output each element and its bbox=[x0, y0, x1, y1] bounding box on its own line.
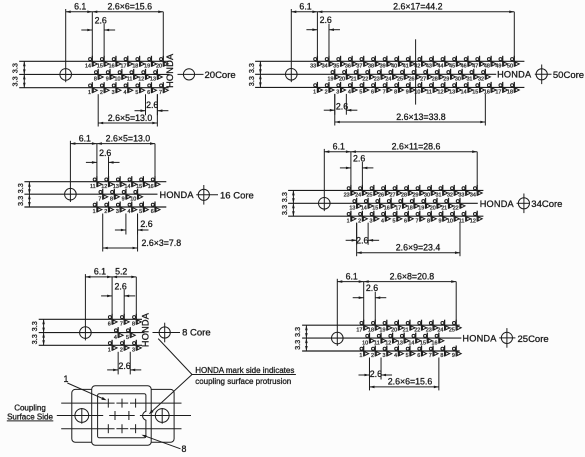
svg-text:2.6: 2.6 bbox=[140, 219, 152, 229]
svg-text:6.1: 6.1 bbox=[333, 142, 345, 152]
svg-text:2.6×5=13.0: 2.6×5=13.0 bbox=[106, 133, 151, 143]
svg-text:3.3: 3.3 bbox=[280, 192, 289, 202]
8 Core body outline bbox=[39, 319, 145, 345]
svg-text:2: 2 bbox=[120, 348, 123, 354]
50Core top row contacts (pins 33-50) bbox=[310, 56, 519, 70]
svg-text:2: 2 bbox=[104, 209, 107, 215]
svg-text:6: 6 bbox=[404, 218, 407, 224]
svg-text:11: 11 bbox=[90, 184, 96, 190]
svg-text:33: 33 bbox=[458, 193, 464, 199]
svg-text:Surface Side: Surface Side bbox=[7, 412, 53, 421]
34Core middle row contacts (pins 13-22) bbox=[349, 198, 465, 212]
svg-text:4: 4 bbox=[348, 90, 351, 96]
svg-text:3.3: 3.3 bbox=[30, 334, 39, 344]
50Core middle row contacts (pins 19-32) bbox=[327, 69, 490, 83]
coupling view contact ticks bottom row bbox=[108, 424, 135, 433]
svg-text:20: 20 bbox=[339, 77, 345, 83]
svg-text:1: 1 bbox=[359, 353, 362, 359]
svg-text:3.3: 3.3 bbox=[11, 63, 20, 73]
svg-text:2.6×13=33.8: 2.6×13=33.8 bbox=[396, 112, 446, 122]
svg-text:7: 7 bbox=[383, 90, 386, 96]
svg-text:2.6×3=7.8: 2.6×3=7.8 bbox=[142, 238, 182, 248]
8 Core polarizing post circle bbox=[153, 323, 181, 343]
svg-text:13: 13 bbox=[349, 206, 355, 212]
svg-text:3: 3 bbox=[132, 348, 135, 354]
coupling view HONDA-mark protrusion notch bbox=[143, 411, 147, 420]
svg-text:10: 10 bbox=[362, 340, 368, 346]
50Core bottom row contacts (pins 1-18) bbox=[313, 82, 519, 96]
50Core bottom dimension 2.6×13=33.8 bbox=[335, 94, 486, 126]
svg-text:18: 18 bbox=[507, 90, 513, 96]
svg-text:HONDA: HONDA bbox=[497, 70, 532, 80]
50Core top 2.6 pitch dimension bbox=[306, 15, 340, 57]
svg-text:3: 3 bbox=[370, 218, 373, 224]
svg-text:33: 33 bbox=[310, 64, 316, 70]
svg-text:17: 17 bbox=[395, 206, 401, 212]
svg-text:18: 18 bbox=[407, 206, 413, 212]
svg-text:7: 7 bbox=[429, 353, 432, 359]
svg-text:7: 7 bbox=[159, 90, 162, 96]
svg-text:6.1: 6.1 bbox=[346, 271, 358, 281]
svg-text:16: 16 bbox=[484, 90, 490, 96]
34Core polarizing post circle bbox=[517, 194, 530, 214]
svg-text:2.6: 2.6 bbox=[115, 281, 127, 291]
16 Core bottom dimension 2.6×3=7.8 bbox=[103, 214, 182, 252]
svg-text:8: 8 bbox=[440, 353, 443, 359]
16 Core HONDA mark bbox=[160, 190, 195, 200]
svg-text:17: 17 bbox=[356, 327, 362, 333]
20Core bottom 2.6 pitch dimension bbox=[135, 94, 169, 115]
pin 1 label and leader bbox=[63, 374, 106, 400]
16 Core bottom row contacts (pins 1-6) bbox=[93, 202, 160, 216]
svg-text:2.6: 2.6 bbox=[336, 102, 348, 112]
svg-text:8: 8 bbox=[182, 444, 187, 454]
svg-text:6.1: 6.1 bbox=[74, 2, 86, 12]
svg-text:2.6: 2.6 bbox=[353, 153, 365, 163]
8 Core middle row contacts (pins 4-5) bbox=[114, 327, 135, 341]
20Core HONDA mark bbox=[165, 53, 175, 88]
svg-text:7: 7 bbox=[120, 322, 123, 328]
svg-text:22: 22 bbox=[453, 206, 459, 212]
svg-text:7: 7 bbox=[98, 196, 101, 202]
svg-text:20: 20 bbox=[430, 206, 436, 212]
coupling view right mounting hole bbox=[155, 408, 169, 424]
20Core middle row contacts (pins 8-13) bbox=[94, 69, 162, 83]
svg-text:1: 1 bbox=[108, 348, 111, 354]
svg-text:2: 2 bbox=[100, 90, 103, 96]
16 Core top row contacts (pins 11-16) bbox=[90, 176, 160, 190]
svg-text:15: 15 bbox=[472, 90, 478, 96]
svg-text:9: 9 bbox=[106, 77, 109, 83]
svg-text:14: 14 bbox=[85, 64, 91, 70]
20Core body outline bbox=[19, 61, 169, 87]
20Core 3.3/3.3 height dimension bbox=[11, 61, 26, 87]
svg-text:2.6×11=28.6: 2.6×11=28.6 bbox=[392, 142, 441, 152]
svg-text:5: 5 bbox=[139, 209, 142, 215]
svg-text:4: 4 bbox=[123, 90, 126, 96]
34Core top 2.6 pitch dimension bbox=[340, 153, 373, 186]
8 Core top 2.6 pitch dimension bbox=[101, 281, 135, 315]
svg-text:16: 16 bbox=[432, 340, 438, 346]
svg-text:19: 19 bbox=[327, 77, 333, 83]
svg-text:6.1: 6.1 bbox=[299, 2, 311, 12]
svg-text:50: 50 bbox=[507, 64, 513, 70]
svg-text:27: 27 bbox=[390, 193, 396, 199]
svg-text:3: 3 bbox=[383, 353, 386, 359]
svg-text:36: 36 bbox=[345, 64, 351, 70]
16 Core mounting hole bbox=[65, 141, 77, 202]
coupling view horizontal centerline bbox=[57, 415, 191, 417]
svg-text:coupling surface protrusion: coupling surface protrusion bbox=[195, 377, 291, 386]
34Core body outline bbox=[288, 190, 483, 216]
svg-text:Coupling: Coupling bbox=[14, 403, 46, 412]
svg-text:8: 8 bbox=[394, 90, 397, 96]
svg-text:HONDA: HONDA bbox=[165, 53, 175, 88]
svg-text:6: 6 bbox=[151, 209, 154, 215]
svg-text:21: 21 bbox=[441, 206, 447, 212]
coupling view housing outline bbox=[92, 386, 152, 446]
svg-text:2.6×6=15.6: 2.6×6=15.6 bbox=[108, 2, 153, 12]
svg-text:16 Core: 16 Core bbox=[220, 191, 254, 202]
coupling view left mounting hole bbox=[75, 408, 89, 424]
50Core body outline bbox=[255, 61, 524, 87]
svg-text:3.3: 3.3 bbox=[293, 327, 302, 337]
25Core polarizing post circle bbox=[499, 328, 515, 348]
svg-text:2.6: 2.6 bbox=[356, 236, 368, 246]
svg-text:8: 8 bbox=[132, 322, 135, 328]
50Core bottom 2.6 pitch dimension bbox=[324, 94, 358, 115]
25Core mounting hole bbox=[332, 279, 344, 346]
svg-text:29: 29 bbox=[412, 193, 418, 199]
50Core top dimension line 6.1 / 2.6×17=44.2 bbox=[291, 2, 514, 58]
svg-text:6.1: 6.1 bbox=[79, 133, 91, 143]
coupling view flange outline bbox=[72, 389, 174, 442]
svg-text:26: 26 bbox=[409, 77, 415, 83]
20Core top dimension line 6.1 / 2.6×6=15.6 bbox=[66, 2, 164, 58]
svg-text:8: 8 bbox=[427, 218, 430, 224]
svg-text:8: 8 bbox=[94, 77, 97, 83]
svg-text:45: 45 bbox=[449, 64, 455, 70]
svg-text:11: 11 bbox=[127, 77, 133, 83]
svg-text:34: 34 bbox=[470, 193, 476, 199]
20Core top row contacts (pins 14-20) bbox=[85, 56, 168, 70]
8 Core top dimension line 6.1 / 5.2 bbox=[85, 267, 136, 316]
svg-text:23: 23 bbox=[374, 77, 380, 83]
8 Core top row contacts (pins 6-8) bbox=[108, 314, 142, 328]
svg-text:5.2: 5.2 bbox=[115, 267, 127, 277]
20Core bottom dimension 2.6×5=13.0 bbox=[98, 94, 157, 126]
svg-text:18: 18 bbox=[132, 64, 138, 70]
svg-text:16: 16 bbox=[384, 206, 390, 212]
20Core polarizing post circle bbox=[178, 69, 204, 80]
25Core bottom dimension 2.6×6=15.6 bbox=[369, 358, 438, 391]
25Core middle row contacts (pins 10-16) bbox=[362, 333, 444, 347]
svg-text:16: 16 bbox=[109, 64, 115, 70]
svg-text:3: 3 bbox=[336, 90, 339, 96]
svg-text:2.6×5=13.0: 2.6×5=13.0 bbox=[108, 113, 153, 123]
coupling view contact ticks top row bbox=[108, 399, 135, 408]
svg-text:3: 3 bbox=[116, 209, 119, 215]
svg-text:4: 4 bbox=[381, 218, 384, 224]
svg-text:4: 4 bbox=[114, 335, 117, 341]
34Core bottom row contacts (pins 1-12) bbox=[347, 211, 483, 225]
svg-text:30: 30 bbox=[424, 193, 430, 199]
svg-text:3.3: 3.3 bbox=[16, 196, 25, 206]
8 Core bottom 2.6 pitch dimension bbox=[107, 352, 141, 375]
svg-text:6: 6 bbox=[371, 90, 374, 96]
34Core 3.3/3.3 height dimension bbox=[280, 190, 295, 216]
svg-text:24: 24 bbox=[385, 77, 391, 83]
34Core HONDA mark bbox=[480, 199, 515, 209]
svg-text:50Core: 50Core bbox=[553, 70, 584, 81]
svg-text:14: 14 bbox=[361, 206, 367, 212]
svg-text:25: 25 bbox=[397, 77, 403, 83]
svg-text:22: 22 bbox=[362, 77, 368, 83]
svg-text:1: 1 bbox=[313, 90, 316, 96]
20Core mounting hole bbox=[60, 9, 72, 82]
svg-text:9: 9 bbox=[452, 353, 455, 359]
svg-text:9: 9 bbox=[438, 218, 441, 224]
svg-text:1: 1 bbox=[347, 218, 350, 224]
svg-text:5: 5 bbox=[406, 353, 409, 359]
svg-text:39: 39 bbox=[380, 64, 386, 70]
svg-text:14: 14 bbox=[461, 90, 467, 96]
svg-text:34Core: 34Core bbox=[531, 199, 562, 210]
16 Core top 2.6 pitch dimension bbox=[86, 148, 120, 178]
svg-text:2.6: 2.6 bbox=[370, 369, 382, 379]
34Core bottom 2.6 pitch dimension bbox=[346, 223, 379, 246]
svg-text:29: 29 bbox=[443, 77, 449, 83]
svg-text:31: 31 bbox=[466, 77, 472, 83]
svg-text:6.1: 6.1 bbox=[94, 267, 106, 277]
svg-text:19: 19 bbox=[418, 206, 424, 212]
svg-text:24: 24 bbox=[437, 327, 443, 333]
svg-text:38: 38 bbox=[368, 64, 374, 70]
svg-text:22: 22 bbox=[414, 327, 420, 333]
svg-text:17: 17 bbox=[495, 90, 501, 96]
svg-text:16: 16 bbox=[148, 184, 154, 190]
svg-text:43: 43 bbox=[426, 64, 432, 70]
svg-text:2.6: 2.6 bbox=[320, 15, 332, 25]
svg-text:30: 30 bbox=[455, 77, 461, 83]
svg-text:1: 1 bbox=[93, 209, 96, 215]
svg-text:12: 12 bbox=[385, 340, 391, 346]
25Core top 2.6 pitch dimension bbox=[353, 283, 387, 321]
svg-text:13: 13 bbox=[150, 77, 156, 83]
svg-text:15: 15 bbox=[97, 64, 103, 70]
svg-text:5: 5 bbox=[126, 335, 129, 341]
16 Core body outline bbox=[24, 182, 166, 207]
svg-text:49: 49 bbox=[495, 64, 501, 70]
svg-text:20: 20 bbox=[156, 64, 162, 70]
34Core top row contacts (pins 23-34) bbox=[344, 185, 483, 199]
25Core bottom row contacts (pins 1-9) bbox=[359, 346, 461, 360]
8 Core 3.3/3.3 height dimension bbox=[30, 319, 45, 345]
svg-text:27: 27 bbox=[420, 77, 426, 83]
svg-text:10: 10 bbox=[447, 218, 453, 224]
svg-text:3.3: 3.3 bbox=[293, 340, 302, 350]
20Core bottom row contacts (pins 1-7) bbox=[88, 82, 168, 96]
svg-text:2: 2 bbox=[371, 353, 374, 359]
34Core mounting hole bbox=[319, 149, 331, 211]
svg-text:4: 4 bbox=[394, 353, 397, 359]
svg-text:3.3: 3.3 bbox=[30, 321, 39, 331]
svg-text:HONDA: HONDA bbox=[160, 190, 195, 200]
coupling view mating face inner outline bbox=[98, 394, 146, 438]
svg-text:11: 11 bbox=[426, 90, 432, 96]
svg-text:17: 17 bbox=[120, 64, 126, 70]
16 Core polarizing post circle bbox=[196, 185, 218, 205]
svg-text:13: 13 bbox=[397, 340, 403, 346]
svg-text:20: 20 bbox=[391, 327, 397, 333]
8 Core bottom row contacts (pins 1-3) bbox=[108, 340, 142, 354]
svg-text:21: 21 bbox=[403, 327, 409, 333]
25Core HONDA mark bbox=[462, 333, 497, 343]
coupling view contact ticks middle row bbox=[115, 411, 129, 420]
svg-text:31: 31 bbox=[435, 193, 441, 199]
svg-text:12: 12 bbox=[470, 218, 476, 224]
svg-text:2: 2 bbox=[325, 90, 328, 96]
svg-text:48: 48 bbox=[484, 64, 490, 70]
16 Core top dimension line 6.1 / 2.6×5=13.0 bbox=[70, 133, 155, 177]
34Core bottom dimension 2.6×9=23.4 bbox=[357, 223, 460, 257]
svg-text:7: 7 bbox=[415, 218, 418, 224]
svg-text:HONDA: HONDA bbox=[462, 333, 497, 343]
svg-text:12: 12 bbox=[138, 77, 144, 83]
svg-text:28: 28 bbox=[401, 193, 407, 199]
svg-text:25Core: 25Core bbox=[518, 334, 549, 345]
svg-text:15: 15 bbox=[420, 340, 426, 346]
svg-text:9: 9 bbox=[406, 90, 409, 96]
50Core 3.3/3.3 height dimension bbox=[247, 61, 262, 87]
25Core 3.3/3.3 height dimension bbox=[293, 325, 308, 351]
svg-text:2.6: 2.6 bbox=[146, 100, 158, 110]
svg-text:12: 12 bbox=[438, 90, 444, 96]
25Core bottom 2.6 pitch dimension bbox=[358, 358, 392, 380]
svg-text:32: 32 bbox=[478, 77, 484, 83]
svg-text:6: 6 bbox=[108, 322, 111, 328]
25Core top dimension line 6.1 / 2.6×8=20.8 bbox=[337, 271, 456, 321]
svg-text:4: 4 bbox=[127, 209, 130, 215]
svg-text:23: 23 bbox=[344, 193, 350, 199]
svg-text:15: 15 bbox=[372, 206, 378, 212]
svg-text:46: 46 bbox=[461, 64, 467, 70]
svg-text:21: 21 bbox=[351, 77, 357, 83]
svg-text:41: 41 bbox=[403, 64, 409, 70]
svg-text:3.3: 3.3 bbox=[280, 205, 289, 215]
svg-text:2.6×9=23.4: 2.6×9=23.4 bbox=[396, 243, 441, 253]
16 Core 3.3/3.3 height dimension bbox=[16, 182, 31, 207]
8 Core HONDA mark bbox=[140, 312, 150, 347]
svg-text:2.6×17=44.2: 2.6×17=44.2 bbox=[393, 2, 443, 12]
svg-text:25: 25 bbox=[449, 327, 455, 333]
svg-text:13: 13 bbox=[449, 90, 455, 96]
svg-text:20Core: 20Core bbox=[205, 70, 236, 81]
20Core top 2.6 pitch dimension bbox=[81, 15, 115, 57]
16 Core middle row contacts (pins 7-10) bbox=[98, 189, 142, 203]
svg-text:2.6: 2.6 bbox=[118, 361, 130, 371]
svg-text:5: 5 bbox=[393, 218, 396, 224]
svg-text:8: 8 bbox=[110, 196, 113, 202]
34Core top dimension line 6.1 / 2.6×11=28.6 bbox=[324, 142, 477, 187]
svg-text:26: 26 bbox=[378, 193, 384, 199]
50Core mounting hole bbox=[286, 9, 298, 82]
coupling view bottom contact row line bbox=[61, 428, 181, 430]
svg-text:3.3: 3.3 bbox=[247, 63, 256, 73]
svg-text:35: 35 bbox=[333, 64, 339, 70]
svg-text:3: 3 bbox=[112, 90, 115, 96]
8 Core mounting hole bbox=[80, 274, 92, 340]
svg-text:8 Core: 8 Core bbox=[182, 328, 211, 339]
svg-text:19: 19 bbox=[380, 327, 386, 333]
HONDA mark side annotation with leader bbox=[149, 339, 296, 415]
svg-text:HONDA: HONDA bbox=[140, 312, 150, 347]
svg-text:9: 9 bbox=[122, 196, 125, 202]
svg-text:HONDA: HONDA bbox=[480, 199, 515, 209]
svg-text:14: 14 bbox=[408, 340, 414, 346]
svg-text:2.6×6=15.6: 2.6×6=15.6 bbox=[388, 377, 433, 387]
svg-text:6: 6 bbox=[417, 353, 420, 359]
svg-text:25: 25 bbox=[367, 193, 373, 199]
svg-text:2.6×8=20.8: 2.6×8=20.8 bbox=[390, 271, 435, 281]
svg-text:3.3: 3.3 bbox=[16, 183, 25, 193]
svg-text:5: 5 bbox=[359, 90, 362, 96]
svg-text:40: 40 bbox=[391, 64, 397, 70]
svg-text:47: 47 bbox=[472, 64, 478, 70]
svg-text:37: 37 bbox=[356, 64, 362, 70]
svg-text:23: 23 bbox=[426, 327, 432, 333]
pin 8 label and leader bbox=[142, 435, 187, 454]
16 Core bottom 2.6 pitch dimension bbox=[115, 214, 153, 235]
svg-text:2.6: 2.6 bbox=[366, 283, 378, 293]
svg-text:2: 2 bbox=[358, 218, 361, 224]
svg-text:5: 5 bbox=[135, 90, 138, 96]
svg-text:3.3: 3.3 bbox=[247, 76, 256, 86]
svg-text:24: 24 bbox=[355, 193, 361, 199]
svg-text:34: 34 bbox=[322, 64, 328, 70]
svg-text:3.3: 3.3 bbox=[11, 76, 20, 86]
svg-text:1: 1 bbox=[88, 90, 91, 96]
25Core body outline bbox=[302, 325, 461, 351]
svg-text:44: 44 bbox=[438, 64, 444, 70]
50Core vertical centerline bbox=[415, 39, 417, 104]
svg-text:2.6: 2.6 bbox=[99, 148, 111, 158]
svg-text:2.6: 2.6 bbox=[95, 15, 107, 25]
svg-text:32: 32 bbox=[447, 193, 453, 199]
svg-text:11: 11 bbox=[374, 340, 380, 346]
25Core top row contacts (pins 17-25) bbox=[356, 320, 461, 334]
coupling view top contact row line bbox=[61, 402, 181, 404]
Coupling Surface Side label bbox=[7, 403, 54, 421]
svg-text:19: 19 bbox=[144, 64, 150, 70]
svg-text:28: 28 bbox=[432, 77, 438, 83]
svg-text:HONDA mark side indicates: HONDA mark side indicates bbox=[195, 366, 294, 375]
svg-text:6: 6 bbox=[147, 90, 150, 96]
50Core HONDA mark bbox=[497, 70, 532, 80]
50Core polarizing post circle bbox=[535, 65, 552, 85]
svg-text:18: 18 bbox=[368, 327, 374, 333]
svg-text:10: 10 bbox=[115, 77, 121, 83]
